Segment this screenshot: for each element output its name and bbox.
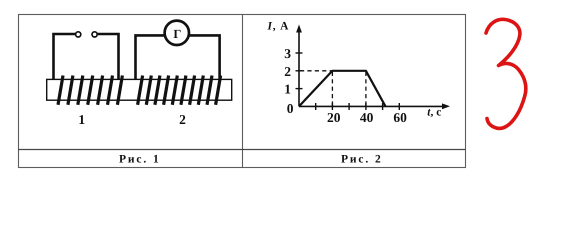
galvanometer Г — [165, 21, 189, 45]
svg-text:I, А: I, А — [267, 20, 290, 32]
table outer border — [19, 15, 466, 168]
coil 2 winding — [138, 76, 221, 105]
svg-text:0: 0 — [287, 101, 294, 116]
terminal: open contact left — [76, 32, 81, 37]
handwritten red mark 3 — [486, 19, 526, 128]
x-axis ticks — [316, 103, 400, 110]
core (ferromagnetic bar) — [47, 79, 232, 100]
dashed guide I=2 — [300, 70, 332, 72]
svg-text:1: 1 — [284, 82, 291, 97]
svg-text:60: 60 — [393, 110, 407, 125]
coil 1 winding — [58, 76, 122, 105]
dashed guide t=20 — [331, 72, 333, 106]
svg-text:Рис. 1: Рис. 1 — [119, 154, 161, 166]
svg-text:2: 2 — [284, 64, 291, 79]
wire: coil 1 right lead — [97, 34, 118, 79]
y-axis (I) with arrow — [296, 25, 302, 107]
svg-text:t, с: t, с — [427, 107, 441, 119]
terminal: open contact right — [92, 32, 97, 37]
table caption separator — [18, 149, 466, 151]
svg-text:20: 20 — [327, 110, 341, 125]
current curve I(t) — [299, 71, 386, 107]
svg-text:2: 2 — [179, 112, 186, 127]
wire: coil 2 right lead — [188, 35, 219, 79]
svg-text:Рис. 2: Рис. 2 — [341, 154, 383, 166]
dashed guide t=40 — [365, 72, 367, 106]
table column divider — [242, 14, 244, 168]
svg-text:1: 1 — [78, 112, 85, 127]
svg-text:40: 40 — [360, 110, 374, 125]
x-axis (t) with arrow — [299, 103, 450, 109]
y-axis ticks — [296, 53, 303, 89]
svg-text:3: 3 — [284, 46, 291, 61]
svg-text:Г: Г — [173, 27, 181, 41]
wire: coil 2 left lead — [136, 35, 166, 79]
wire: coil 1 left lead — [54, 34, 76, 79]
